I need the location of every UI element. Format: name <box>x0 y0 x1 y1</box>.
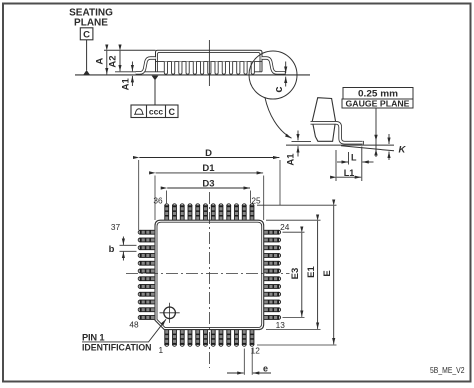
svg-text:E1: E1 <box>306 265 317 277</box>
svg-text:PLANE: PLANE <box>74 18 108 29</box>
svg-text:C: C <box>83 30 90 41</box>
svg-text:D1: D1 <box>202 163 215 174</box>
svg-text:e: e <box>263 364 268 374</box>
svg-text:E3: E3 <box>290 268 301 280</box>
svg-text:A1: A1 <box>286 153 297 166</box>
svg-text:C: C <box>168 107 175 117</box>
svg-text:E: E <box>322 270 333 276</box>
svg-text:D: D <box>205 148 212 159</box>
svg-text:36: 36 <box>153 195 163 205</box>
svg-text:0.25 mm: 0.25 mm <box>358 89 398 99</box>
svg-text:L1: L1 <box>344 168 355 178</box>
svg-text:K: K <box>399 145 407 156</box>
svg-text:1: 1 <box>158 345 163 355</box>
svg-text:PIN 1: PIN 1 <box>82 332 105 342</box>
svg-text:ccc: ccc <box>149 107 163 117</box>
svg-text:A2: A2 <box>107 55 118 67</box>
svg-text:25: 25 <box>251 195 261 205</box>
svg-text:GAUGE PLANE: GAUGE PLANE <box>346 99 410 109</box>
svg-text:b: b <box>109 244 115 255</box>
svg-text:24: 24 <box>280 222 290 232</box>
svg-text:12: 12 <box>251 346 261 356</box>
svg-text:L: L <box>351 152 357 162</box>
svg-text:IDENTIFICATION: IDENTIFICATION <box>82 343 152 353</box>
svg-text:5B_ME_V2: 5B_ME_V2 <box>430 366 465 375</box>
svg-text:48: 48 <box>129 320 139 330</box>
svg-text:A: A <box>95 58 106 65</box>
svg-text:37: 37 <box>111 222 121 232</box>
svg-text:c: c <box>273 86 285 92</box>
svg-text:13: 13 <box>276 320 286 330</box>
svg-text:A1: A1 <box>121 78 132 91</box>
svg-text:D3: D3 <box>202 178 214 189</box>
